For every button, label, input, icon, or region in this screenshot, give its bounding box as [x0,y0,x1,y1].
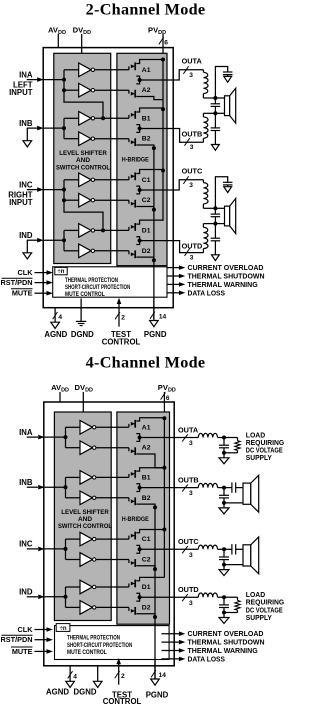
svg-text:6: 6 [166,395,170,402]
divider block n [56,624,70,632]
svg-text:6: 6 [164,39,168,46]
inductor OUTD [198,593,217,597]
ground OUTA [219,458,229,464]
wire IND input [27,239,38,241]
AGND pin [54,308,56,323]
TEST CONTROL pin [118,663,120,685]
buffer INC1 [80,532,92,546]
wire gate INB2 [96,497,129,499]
node B2 source rail junction [152,146,156,150]
wire D1 source [136,237,139,241]
svg-text:3: 3 [189,552,193,559]
inductor OUTC [198,545,217,549]
wire PGND rail through control block [153,266,155,320]
wire A1 source [136,434,139,438]
node INA bus [62,78,66,82]
wire C1 drain [136,170,163,174]
inductor OUTB [203,112,215,114]
DGND pin [80,299,82,322]
wire gate INA2 [95,89,129,91]
wire B2 source [136,504,155,507]
wire buffer IND2 input [64,250,79,252]
transistor B1 [128,474,130,478]
svg-text:RST/PDN: RST/PDN [0,635,32,644]
svg-text:CONTROL: CONTROL [102,338,141,347]
svg-text:OUTD: OUTD [178,585,199,594]
svg-text:OUTA: OUTA [178,425,199,434]
buffer INA2 [80,441,92,455]
wire gate INA1 [96,426,129,428]
svg-text:DGND: DGND [71,330,94,339]
node OUTA bridge midpoint [138,78,142,82]
wire gate INB1 [95,117,129,119]
wire C1 source [136,186,139,190]
wire buffer IND1 input [66,586,81,588]
svg-text:C1: C1 [142,536,151,543]
wire OUTD [140,240,174,242]
svg-text:MUTE CONTROL: MUTE CONTROL [67,649,107,656]
svg-text:OUTC: OUTC [182,167,203,176]
transistor D1 [128,227,130,231]
wire OUTD [140,596,175,598]
svg-text:DGND: DGND [74,688,97,697]
H-bridge block [117,412,170,624]
node A2/B1 rail junction [162,466,166,470]
wire OUTB [140,128,174,130]
svg-text:D2: D2 [142,248,151,255]
wire D2 drain [136,597,139,601]
svg-text:14: 14 [159,672,167,679]
wire OUTB [140,487,175,489]
wire A1 drain [136,418,164,421]
output THERMAL WARNING [162,650,181,652]
svg-text:H-BRIDGE: H-BRIDGE [122,157,150,164]
node OUTC bridge midpoint [138,188,142,192]
transistor A2 [128,90,130,94]
wire INB input [27,127,38,129]
wire OUTD [174,596,198,598]
svg-text:A2: A2 [142,445,151,452]
svg-text:MUTE CONTROL: MUTE CONTROL [65,291,105,298]
level shifter block [54,53,111,263]
svg-text:SWITCH CONTROL: SWITCH CONTROL [56,164,110,171]
node A1 drain PVDD [162,416,166,420]
PGND pin [151,670,156,677]
capacitor OUTD to ground [223,597,225,605]
wire D2 drain [136,241,139,245]
svg-text:THERMAL PROTECTION: THERMAL PROTECTION [65,277,118,284]
node OUTB filter [222,486,226,490]
node OUTD bridge midpoint [138,239,142,243]
wire buffer INA1 input [64,69,79,71]
control block THERMAL PROTECTION / SHORT-CIRCUIT PROTECTION / MUTE CONTROL [53,267,167,297]
node OUTD bridge midpoint [138,595,142,599]
svg-text:2: 2 [121,673,125,680]
svg-text:INB: INB [19,119,33,128]
node A1 drain PVDD [161,58,165,62]
ground OUTD [219,618,229,624]
wire INC input [27,189,38,191]
svg-text:B1: B1 [142,474,151,481]
wire PGND rail through control block [154,624,156,679]
wire MUTE [35,650,48,652]
wire gate INA1 [95,69,129,71]
wire to speaker + [215,207,224,209]
svg-text:INC: INC [19,180,33,189]
node A2/B1 rail junction [161,107,165,111]
node OUTA filter [213,96,217,100]
node C2 source rail junction [153,567,157,571]
wire C1 source [136,545,139,549]
svg-text:3: 3 [189,490,193,497]
wire gate INA2 [96,447,129,449]
svg-text:OUTA: OUTA [182,57,203,66]
output CURRENT OVERLOAD [167,267,180,269]
wire PVDD rail [162,60,164,221]
speaker OUTC [243,545,251,566]
wire C2 source [136,566,155,569]
wire D2 source [136,257,154,260]
svg-text:AGND: AGND [46,688,69,697]
wire buffer INC2 input [66,559,81,561]
transistor B2 [128,139,130,143]
svg-text:OUTB: OUTB [182,129,203,138]
outer chip box [43,48,173,308]
svg-text:2: 2 [121,315,125,322]
buffer INC1 [79,173,91,187]
AGND pin [69,666,71,682]
svg-text:INC: INC [19,540,33,549]
wire A1 source [136,76,139,80]
transistor D1 [128,584,130,588]
wire B2 drain [136,129,139,133]
transistor B1 [128,115,130,119]
wire switch-control route INC [64,200,103,230]
svg-text:THERMAL PROTECTION: THERMAL PROTECTION [67,635,120,642]
node INC bus [62,188,66,192]
capacitor OUTB to ground [223,488,225,496]
wire OUTC [174,548,198,550]
svg-text:PGND: PGND [144,330,167,339]
capacitor OUTB to ground [214,113,216,128]
svg-text:C1: C1 [142,177,151,184]
svg-text:D1: D1 [142,584,151,591]
svg-text:A1: A1 [142,424,151,431]
wire OUTA [174,437,198,439]
svg-text:3: 3 [189,600,193,607]
outer chip box [44,402,174,666]
wire B2 source [136,145,154,148]
wire B1 drain [136,468,164,471]
wire buffer INB1 input [64,117,79,119]
output CURRENT OVERLOAD [162,633,181,635]
wire D2 source [136,614,155,617]
node OUTA filter [222,436,226,440]
buffer IND1 [79,224,91,238]
node OUTC filter [222,547,226,551]
wire buffer INC1 input [66,538,81,540]
wire CLK [35,272,48,274]
wire C2 drain [136,190,139,194]
node INB bus [62,126,66,130]
wire PGND rail [154,507,156,679]
wire buffer IND2 input [66,606,81,608]
capacitor between OUTC and OUTD [214,208,216,214]
node OUTD filter [222,595,226,599]
buffer INA1 [79,63,91,77]
buffer INC2 [80,553,92,567]
buffer INB2 [79,132,91,146]
node route joins INB1 gate [101,116,105,120]
buffer INB1 [79,112,91,126]
wire OUTA to filter [173,70,203,80]
node OUTB ground [222,501,226,505]
svg-text:A2: A2 [142,87,151,94]
buffer INA1 [80,421,92,435]
svg-text:14: 14 [159,314,167,321]
transistor C1 [128,176,130,180]
svg-text:D1: D1 [142,227,151,234]
capacitor OUTC to ground [223,549,225,557]
buffer INC2 [79,193,91,207]
level shifter block [54,412,111,621]
buffer INB1 [80,471,92,485]
svg-text:OUTB: OUTB [178,475,199,484]
ground OUTC [219,570,229,576]
ground at INB pin [26,128,28,141]
wire RST/PDN [35,282,48,284]
svg-text:PGND: PGND [146,691,169,700]
svg-text:LEVEL SHIFTER: LEVEL SHIFTER [61,509,109,516]
svg-text:SWITCH CONTROL: SWITCH CONTROL [58,523,112,530]
svg-text:4-Channel Mode: 4-Channel Mode [86,354,206,372]
node C2 source rail junction [152,208,156,212]
node OUTB bridge midpoint [138,127,142,131]
svg-text:A1: A1 [142,67,151,74]
svg-text:INA: INA [19,428,33,437]
wire gate INC1 [95,179,129,181]
control block THERMAL PROTECTION / SHORT-CIRCUIT PROTECTION / MUTE CONTROL [55,626,170,660]
wire INA input [27,79,38,81]
wire to speaker - [215,223,224,225]
buffer INA2 [79,83,91,97]
node INB bus [64,485,68,489]
wire RST/PDN [35,639,48,641]
svg-text:H-BRIDGE: H-BRIDGE [122,516,150,523]
svg-text:DATA LOSS: DATA LOSS [188,654,226,663]
node IND bus [64,595,68,599]
wire OUTC [140,548,175,550]
node D2 source rail junction [153,615,157,619]
wire buffer INA2 input [64,89,79,91]
svg-text:SUPPLY: SUPPLY [246,453,272,462]
svg-text:3: 3 [189,440,193,447]
wire OUTC to filter [173,180,203,190]
svg-text:C2: C2 [142,557,151,564]
transistor B2 [128,498,130,502]
wire C2 source [136,207,154,210]
wire gate IND1 [96,586,129,588]
inductor OUTC [202,180,204,183]
svg-text:MUTE: MUTE [12,647,33,656]
svg-text:SUPPLY: SUPPLY [246,613,272,622]
svg-text:AND: AND [78,516,92,523]
node OUTB filter [213,111,217,115]
wire buffer INB2 input [64,138,79,140]
wire A2 drain [136,80,139,84]
svg-text:LEVEL SHIFTER: LEVEL SHIFTER [59,150,107,157]
svg-text:÷n: ÷n [60,626,67,632]
wire OUTB to filter [173,129,203,143]
wire gate INB1 [96,476,129,478]
buffer IND1 [80,580,92,594]
wire to speaker - [215,112,224,114]
buffer INB2 [80,491,92,505]
node INA bus [64,435,68,439]
buffer IND2 [79,244,91,258]
svg-text:÷n: ÷n [58,269,65,275]
inductor OUTB [198,483,217,487]
wire buffer INA2 input [66,447,81,449]
svg-text:CONTROL: CONTROL [103,697,142,704]
H-bridge block [117,53,167,265]
wire B2 drain [136,488,139,492]
wire gate INC2 [95,199,129,201]
output THERMAL SHUTDOWN [162,641,181,643]
wire A1 drain [136,60,163,64]
svg-text:4: 4 [58,314,62,321]
capacitor OUTC series [224,548,232,550]
wire buffer INB2 input [66,497,81,499]
transistor C2 [128,560,130,564]
ground OUTB [219,508,229,514]
wire A2 drain [136,438,139,442]
svg-text:3: 3 [189,182,193,189]
inductor OUTA [198,433,217,437]
node OUTC filter [213,206,217,210]
wire gate IND2 [95,250,129,252]
transistor C2 [128,200,130,204]
wire MUTE [35,292,48,294]
wire CLK [35,629,48,631]
wire A2 source [136,97,163,100]
svg-text:B2: B2 [142,495,151,502]
capacitor OUTC to ground [215,177,227,209]
wire gate INB2 [95,138,129,140]
wire C1 drain [136,530,164,533]
wire buffer IND1 input [64,229,79,231]
inductor OUTD [203,223,215,225]
transistor D2 [128,251,130,255]
wire B1 drain [136,108,163,112]
buffer IND2 [80,601,92,615]
svg-text:B2: B2 [142,136,151,143]
svg-text:INB: INB [19,478,33,487]
svg-text:2-Channel Mode: 2-Channel Mode [86,1,206,19]
wire OUTB speaker return [224,502,243,504]
svg-text:C2: C2 [142,197,151,204]
svg-text:OUTC: OUTC [178,537,199,546]
node OUTD filter [213,222,217,226]
node OUTC ground [222,563,226,567]
wire buffer INC2 input [64,199,79,201]
transistor A2 [128,448,130,452]
svg-text:RST/PDN: RST/PDN [0,278,32,287]
svg-text:INPUT: INPUT [9,198,33,207]
wire PVDD rail [163,418,165,577]
output DATA LOSS [162,658,181,660]
svg-text:IND: IND [19,588,33,597]
capacitor OUTA to ground [215,67,227,99]
node INC bus [64,547,68,551]
resistor load OUTA [224,437,238,439]
svg-text:AND: AND [76,157,90,164]
wire gate INC1 [96,538,129,540]
wire OUTC speaker return [224,564,243,566]
node D2 source rail junction [152,258,156,262]
svg-text:CLK: CLK [18,268,34,277]
svg-text:4: 4 [73,673,77,680]
wire C2 drain [136,549,139,553]
wire INC input [27,548,38,550]
output THERMAL SHUTDOWN [167,275,180,277]
DGND pin [97,666,99,682]
transistor A1 [128,66,130,70]
node OUTC bridge midpoint [138,547,142,551]
speaker OUTB [243,483,251,504]
TEST CONTROL pin [118,303,120,327]
node B2 source rail junction [153,505,157,509]
node OUTA ground [222,451,226,455]
wire OUTB [174,487,198,489]
wire OUTA [140,79,174,81]
node C1 drain rail junction [161,169,165,173]
wire A2 source [136,454,164,468]
svg-text:OUTD: OUTD [182,242,203,251]
wire D1 source [136,593,139,597]
svg-text:D2: D2 [142,604,151,611]
svg-text:AGND: AGND [44,330,67,339]
wire OUTA [140,437,175,439]
svg-text:3: 3 [189,72,193,79]
svg-text:B1: B1 [142,115,151,122]
capacitor OUTD to ground [214,224,216,239]
node OUTB bridge midpoint [138,486,142,490]
output DATA LOSS [167,292,180,294]
inductor OUTA [202,70,204,73]
svg-text:SHORT-CIRCUIT PROTECTION: SHORT-CIRCUIT PROTECTION [67,642,132,649]
node IND bus [62,238,66,242]
wire INA input [27,436,38,438]
capacitor OUTA to ground [223,438,225,446]
svg-text:DATA LOSS: DATA LOSS [188,288,226,297]
node C1 drain rail junction [162,528,166,532]
capacitor OUTB series [224,487,232,489]
svg-text:INA: INA [19,70,33,79]
wire gate IND2 [96,606,129,608]
transistor D2 [128,607,130,611]
node route joins IND1 gate [101,228,105,232]
wire to speaker + [215,97,224,99]
svg-text:3: 3 [190,254,194,261]
wire B1 source [136,125,139,129]
wire gate IND1 [95,229,129,231]
speaker [225,206,230,226]
transistor C1 [128,536,130,540]
svg-text:MUTE: MUTE [12,289,33,298]
wire buffer INB1 input [66,476,81,478]
svg-text:INPUT: INPUT [9,88,33,97]
